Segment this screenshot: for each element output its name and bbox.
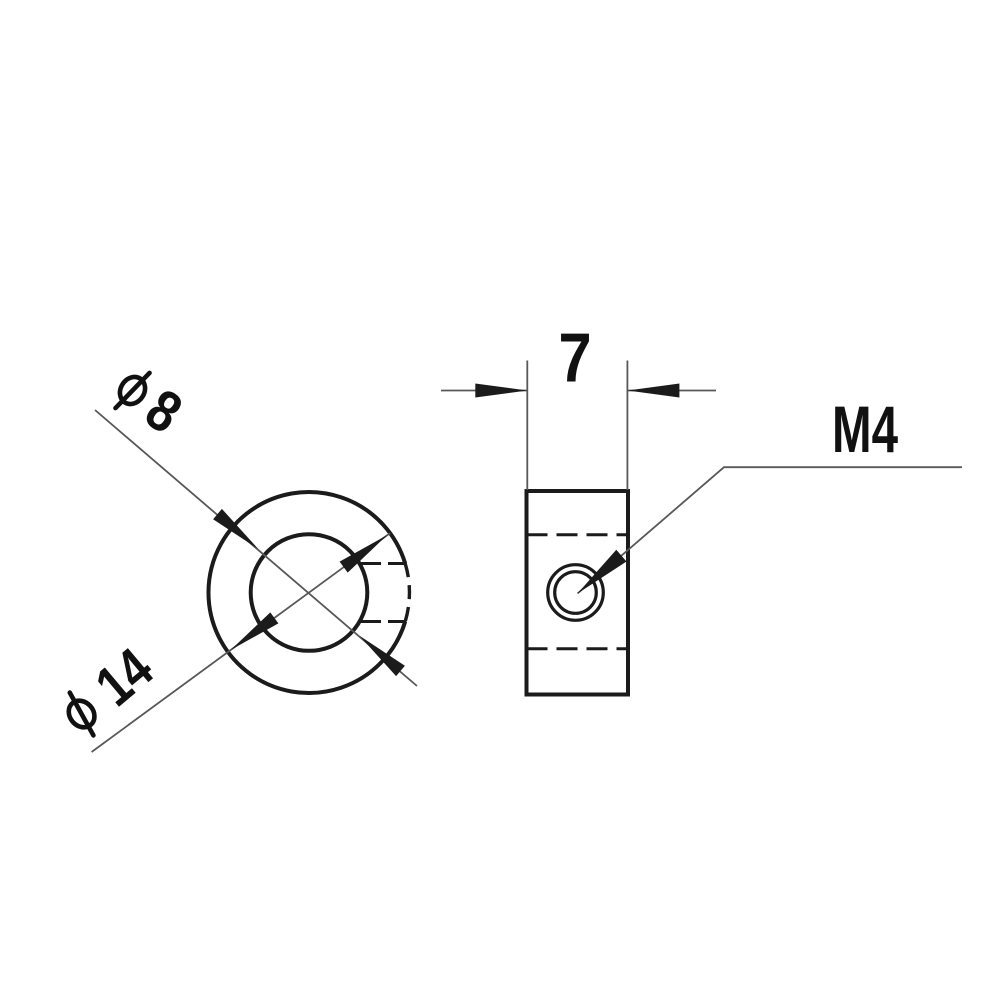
arrowhead D8 upper-left xyxy=(213,509,258,549)
outer circle dashed arc at hole xyxy=(405,564,409,622)
outer circle (front view, D14) xyxy=(208,492,405,693)
extension line right (width dim) xyxy=(626,361,628,491)
dimension line 7 left part xyxy=(441,390,527,392)
arrowhead D14 upper-right xyxy=(340,535,388,573)
dimension arrowhead 7 left xyxy=(475,384,527,398)
M4 thread outer circle xyxy=(548,565,604,621)
svg-text:7: 7 xyxy=(558,318,591,397)
label diameter-8 xyxy=(105,357,193,446)
arrowhead D14 lower-left xyxy=(231,612,279,650)
leader line M4 xyxy=(578,467,963,593)
label diameter-14 xyxy=(52,637,165,746)
hidden hole line upper (front view) xyxy=(359,562,407,565)
svg-text:M4: M4 xyxy=(832,393,898,466)
dimension arrowhead 7 right xyxy=(627,384,679,398)
inner circle (front view, D8 bore) xyxy=(251,534,368,651)
arrowhead D8 lower-right xyxy=(360,636,405,676)
M4 tap hole inner circle xyxy=(555,572,597,614)
extension line left (width dim) xyxy=(526,361,528,491)
dimension line D8 (diagonal) xyxy=(95,410,417,686)
hidden bore line upper (side view) xyxy=(527,533,629,536)
leader arrowhead M4 xyxy=(578,550,627,594)
hidden bore line lower (side view) xyxy=(527,647,629,650)
dimension line 7 right part xyxy=(627,390,716,392)
hidden hole line lower (front view) xyxy=(359,620,407,623)
side view body rectangle xyxy=(527,491,629,695)
dimension line D14 (diagonal) xyxy=(92,533,390,752)
